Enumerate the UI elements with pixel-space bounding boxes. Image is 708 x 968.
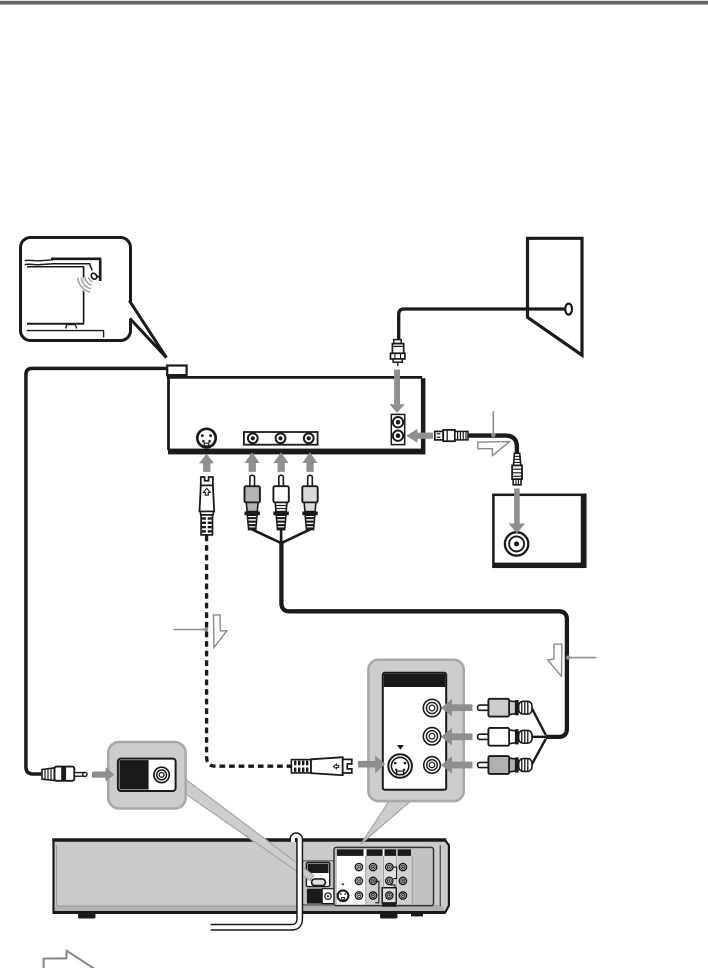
antenna connector at TV right: [435, 430, 468, 441]
S-video jack on TV: [197, 429, 215, 447]
arrow into cable box jack: [509, 489, 526, 534]
top rule: [0, 1, 708, 5]
IR signal arcs: [78, 277, 93, 292]
callout balloon (TV with IR blaster): [21, 238, 168, 359]
cable from TV to cable box: [468, 436, 517, 454]
AV callout: S-video jack: [388, 745, 412, 778]
callout tail to IR jack: [183, 777, 314, 880]
arrow into antenna-in jack: [389, 370, 405, 413]
TV-side AV plug: white/audio RCA plug: [273, 475, 288, 529]
HDMI jack (redrawn over tail): [312, 879, 326, 886]
recorder rear: bracket links: [375, 867, 396, 903]
leader line to antenna cable: [491, 411, 496, 437]
cable box: [493, 495, 585, 568]
wall outlet hole: [565, 304, 572, 315]
RCA plate on TV: [244, 432, 318, 445]
antenna 2-jack plate on TV: [391, 414, 404, 444]
recorder rear: S-video jack: [338, 884, 349, 902]
AV callout: audio L jack: [423, 728, 440, 745]
TV sketch inside balloon: [25, 259, 104, 338]
recorder rear: HDMI recess: [302, 861, 335, 905]
recorder-side plug: video RCA plug: [478, 699, 532, 717]
arrows into TV AV jacks: [199, 452, 317, 472]
continued marker (bottom left): [44, 951, 96, 968]
recorder rear: RCA jack grid: [355, 863, 406, 899]
antenna wall outlet: [528, 238, 583, 355]
flow marker (S-video cable): [214, 615, 227, 648]
mini plug: [42, 767, 87, 781]
S-video plug (horizontal): [291, 757, 351, 775]
AV callout: video in jack: [423, 699, 440, 716]
antenna F-connector (vertical): [391, 340, 405, 366]
arrow into IR jack callout: [92, 767, 114, 781]
combined AV cable: [281, 541, 567, 737]
recorder-side plug: audio L RCA plug: [478, 728, 532, 746]
arrows into AV callout jacks: [441, 699, 473, 774]
leader line to AV cable: [566, 655, 597, 659]
AV callout: audio R jack: [424, 757, 441, 774]
aerial cable from wall: [399, 309, 567, 340]
AV panel callout box: [368, 660, 463, 801]
arrow into TV antenna-out jack: [406, 429, 433, 443]
dashed S-video cable: [207, 536, 292, 767]
TV-side AV plug: red/audio RCA plug: [302, 475, 317, 529]
IR emitter box on TV top edge: [167, 366, 186, 376]
recorder-side plug: audio R RCA plug: [478, 756, 532, 774]
AV cable merge (recorder side): [532, 708, 548, 765]
TV-side AV plug: yellow/video RCA plug: [245, 475, 260, 529]
IR emitter in balloon: [90, 272, 99, 280]
IR jack callout box: [108, 742, 185, 809]
arrow into S-video input: [358, 755, 385, 773]
recorder rear: jack panel: [334, 847, 434, 906]
S-video plug (vertical): [200, 477, 215, 535]
TV back panel: [167, 376, 426, 454]
IR blaster wire (left side): [26, 368, 167, 774]
recorder feet: [78, 914, 96, 919]
cable box coax jack: [505, 532, 528, 555]
callout tail to AV panel: [361, 799, 413, 844]
AV cable merge (TV side): [252, 529, 310, 542]
aerial cable hanging over recorder: [211, 836, 300, 927]
leader line to S-video cable: [174, 627, 209, 631]
coax plug (vertical): [512, 453, 522, 485]
flow marker (antenna cable): [478, 442, 510, 456]
DVD recorder body: [52, 840, 449, 914]
flow marker (AV cable): [548, 644, 562, 676]
